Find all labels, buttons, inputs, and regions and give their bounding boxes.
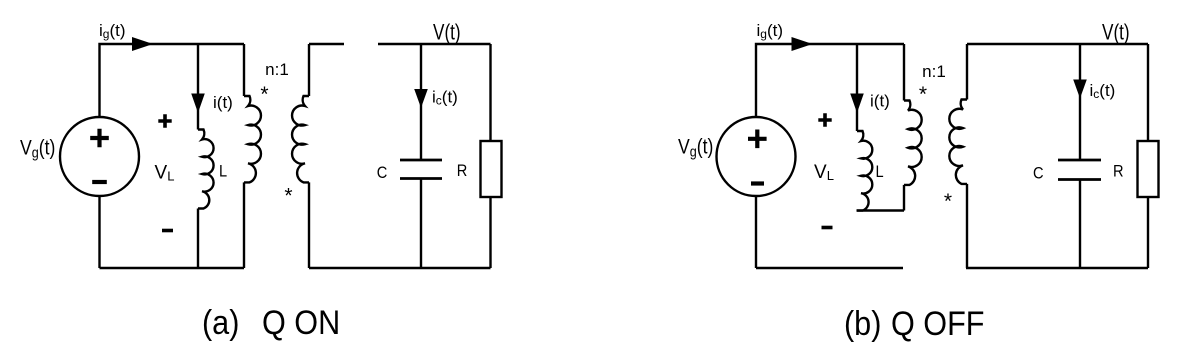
wire node to inductor (b) [856,44,858,131]
wire source bottom (b) [755,196,757,268]
wire top rail output side (a) [378,43,491,45]
wire source top to top rail (b) [756,44,904,117]
svg-text:ic(t): ic(t) [1090,81,1116,101]
transformer secondary winding (b) [966,44,968,100]
inductor L (b) [857,131,872,211]
wire inductor to primary bottom loop (b) [857,209,905,211]
svg-text:(b): (b) [844,305,881,343]
transformer primary winding (a) [243,44,245,96]
svg-text:*: * [944,190,952,213]
svg-text:C: C [377,164,388,182]
bottom rail primary side (a) [100,267,245,269]
wire capacitor bottom lead (a) [420,179,422,269]
svg-text:n:1: n:1 [922,62,946,81]
wire secondary bottom (a) [308,182,310,268]
svg-text:Vg(t): Vg(t) [678,135,713,159]
wire inductor bottom (a) [197,209,199,269]
current arrow ig (a) [133,38,151,50]
svg-text:L: L [219,163,227,181]
capacitor C (b) [1058,160,1101,180]
svg-text:Q ON: Q ON [262,304,340,342]
current arrow ic (a) [415,90,427,106]
bottom rail open at switch (b) [756,267,903,269]
current arrow ig (b) [792,38,810,50]
wire resistor top lead (b) [1147,44,1149,141]
wire secondary bottom (b) [966,184,968,268]
svg-text:Vg(t): Vg(t) [20,136,55,160]
wire primary bottom (b) [903,185,905,211]
plus label VL (b) [818,113,831,126]
transformer secondary winding (a) [308,44,310,96]
wire resistor bottom lead (b) [1147,197,1149,268]
wire secondary top, open diode gap (a) [309,43,344,45]
svg-text:VL: VL [814,162,834,183]
svg-text:ic(t): ic(t) [432,88,458,108]
svg-text:ig(t): ig(t) [99,21,126,41]
svg-text:Q OFF: Q OFF [891,305,984,343]
svg-text:*: * [260,83,268,106]
wire resistor top lead (a) [489,44,491,141]
svg-text:i(t): i(t) [213,93,233,112]
bottom rail output side (b) [966,267,1148,269]
minus label VL (b) [822,226,833,230]
svg-text:V(t): V(t) [433,21,461,46]
svg-text:R: R [457,162,468,180]
voltage source Vg (a) [60,117,139,196]
bottom rail output side (a) [309,267,491,269]
wire source top to top rail (a) [100,44,245,117]
svg-text:(a): (a) [202,304,239,342]
resistor R (b) [1138,141,1159,197]
wire capacitor top lead (a) [420,44,422,160]
transformer primary winding (b) [903,44,905,101]
svg-text:R: R [1113,163,1124,181]
wire capacitor top lead (b) [1079,44,1081,160]
voltage source Vg (b) [717,117,796,196]
wire source bottom (a) [98,197,100,269]
svg-text:i(t): i(t) [870,92,890,111]
svg-text:ig(t): ig(t) [757,21,784,41]
current arrow i(t) (b) [851,94,863,111]
svg-text:C: C [1033,165,1044,183]
capacitor C (a) [400,160,442,179]
svg-text:L: L [876,163,884,181]
wire top rail output side (b) [967,43,1148,45]
wire primary bottom (a) [243,182,245,268]
resistor R (a) [481,141,502,197]
svg-text:n:1: n:1 [265,60,289,79]
svg-text:*: * [284,185,292,208]
svg-text:V(t): V(t) [1102,21,1130,46]
wire node to inductor (a) [197,44,199,130]
wire resistor bottom lead (a) [489,197,491,268]
wire capacitor bottom lead (b) [1079,180,1081,269]
plus label VL (a) [158,114,171,127]
svg-text:*: * [919,83,927,106]
current arrow ic (b) [1074,80,1086,96]
minus label VL (a) [162,229,173,233]
svg-text:VL: VL [155,163,175,184]
inductor L (a) [198,130,214,209]
current arrow i(t) (a) [192,94,204,111]
